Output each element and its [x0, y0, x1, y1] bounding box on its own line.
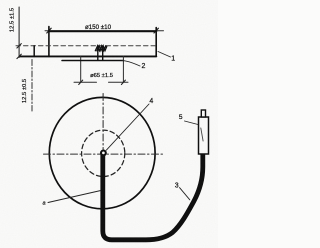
horizontal centerline — [44, 153, 163, 155]
hatch on stem — [95, 46, 107, 51]
hidden line (recess) — [16, 45, 156, 47]
tick on left dim at bottom — [17, 54, 21, 58]
leader 5 — [185, 121, 199, 125]
stem left wall — [97, 47, 99, 61]
plate 2 left edge / ext line — [80, 56, 82, 82]
connector body (5) — [199, 117, 209, 154]
center hub circle — [101, 151, 106, 156]
cable (3) — [103, 152, 203, 240]
connector pin — [201, 110, 205, 117]
stem right wall — [102, 47, 104, 61]
leader 3 — [180, 188, 190, 200]
vertical centerline — [102, 94, 104, 150]
disc bottom edge — [20, 55, 156, 57]
disc right edge — [155, 28, 157, 56]
tick on left dim at hidden line — [17, 44, 21, 48]
tick left of ∅150 — [47, 28, 51, 33]
inner dashed circle ∅65 — [82, 130, 125, 176]
dimension line ∅65 — [74, 81, 128, 83]
plate 2 right edge / ext line — [122, 56, 124, 82]
plate 2 bottom — [62, 60, 123, 62]
left dimension line 12.5 ±1.5 — [18, 7, 20, 58]
connector inner mark — [201, 128, 203, 141]
dimension line ∅150 — [45, 30, 164, 32]
leader 2 — [122, 60, 140, 66]
leader a — [48, 191, 101, 203]
tick right of ∅150 — [154, 28, 158, 33]
leader 4 — [106, 104, 149, 150]
tick right ∅65 — [121, 80, 125, 84]
tick left ∅65 — [79, 80, 83, 84]
disc top edge — [49, 30, 156, 32]
left tab edge — [33, 46, 35, 57]
plate circle (bottom view) — [49, 97, 155, 208]
centerline below (dash-dot) — [31, 60, 33, 112]
disc left edge — [48, 27, 50, 57]
paper noise overlay — [0, 0, 218, 248]
leader 1 — [158, 52, 171, 58]
